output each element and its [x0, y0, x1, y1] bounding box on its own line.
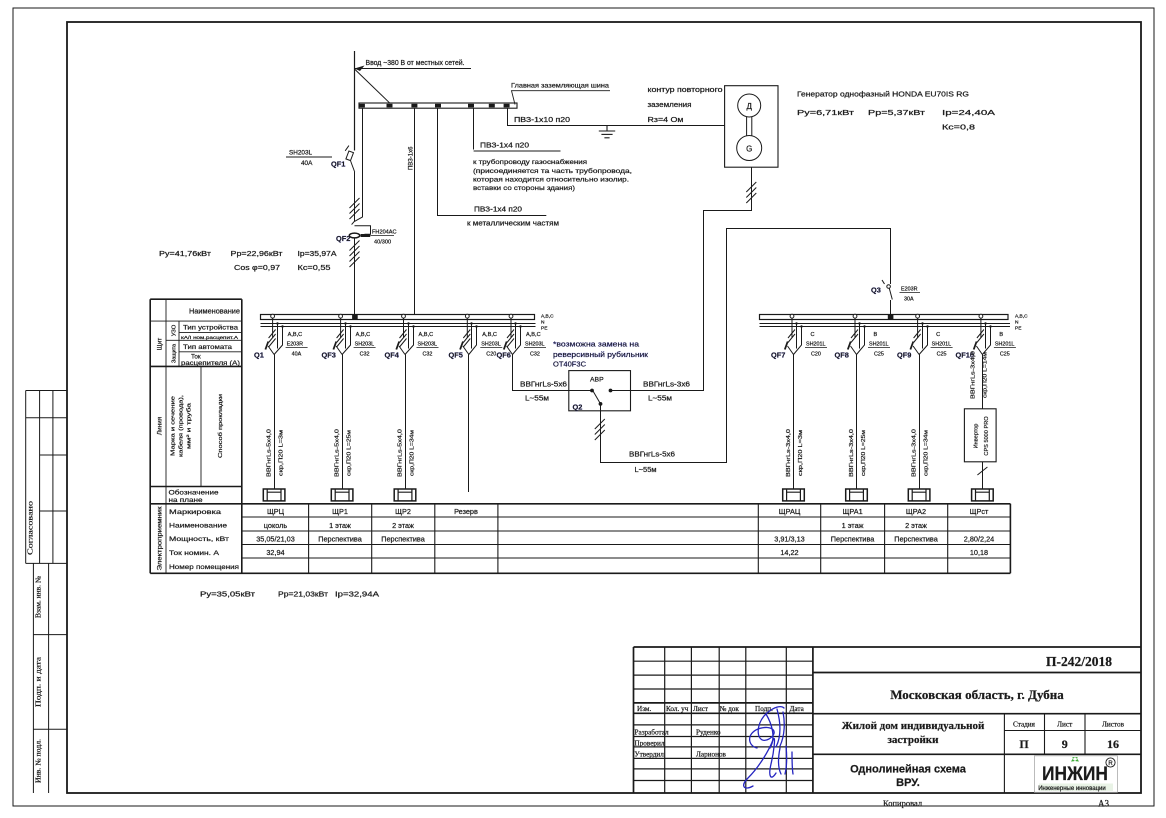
svg-text:N: N: [541, 320, 545, 326]
svg-text:C32: C32: [423, 352, 433, 358]
svg-text:ВРУ.: ВРУ.: [896, 777, 920, 789]
svg-text:40A: 40A: [301, 160, 313, 167]
cable marks below QF2: [350, 241, 360, 268]
svg-text:32,94: 32,94: [266, 548, 284, 557]
circuit breaker QF3: [333, 314, 351, 354]
svg-text:Кс=0,8: Кс=0,8: [942, 125, 975, 132]
svg-text:30A: 30A: [904, 297, 914, 303]
svg-text:Лист: Лист: [1057, 721, 1073, 729]
svg-text:R: R: [1108, 761, 1113, 767]
svg-text:ПВЗ-1х4 п20: ПВЗ-1х4 п20: [480, 143, 529, 150]
svg-text:Iр=32,94А: Iр=32,94А: [335, 590, 379, 599]
wire: ПВЗ-1х10 to earth electrode and generator frame: [508, 108, 725, 125]
wire: АВР output to backup bus: [601, 229, 891, 463]
svg-text:Руденко: Руденко: [696, 729, 721, 737]
svg-text:ИНЖИН: ИНЖИН: [1042, 764, 1108, 785]
svg-text:L~55м: L~55м: [648, 396, 672, 403]
svg-text:Инженерные инновации: Инженерные инновации: [1038, 786, 1106, 792]
svg-text:Rз=4 Ом: Rз=4 Ом: [648, 117, 684, 124]
svg-text:FH204AC: FH204AC: [372, 230, 397, 236]
svg-text:ОТ40F3C: ОТ40F3C: [553, 362, 586, 369]
svg-text:A,B,C: A,B,C: [356, 332, 371, 338]
svg-text:ЩРАЦ: ЩРАЦ: [779, 507, 801, 516]
svg-text:QF7: QF7: [771, 351, 785, 360]
svg-text:*возможна замена на: *возможна замена на: [553, 342, 639, 349]
svg-text:скр,П20 L=25м: скр,П20 L=25м: [347, 430, 353, 476]
svg-text:C: C: [936, 332, 940, 338]
panel symbol ЩР2: [394, 489, 416, 501]
svg-text:Согласовано: Согласовано: [26, 501, 35, 555]
svg-text:SH203L: SH203L: [289, 150, 313, 157]
svg-text:вставки со стороны здания): вставки со стороны здания): [473, 185, 575, 192]
wire: reserve feeder QF5: [468, 355, 470, 493]
logo ИНЖИН: [1034, 756, 1117, 793]
svg-text:(присоединяется та часть трубо: (присоединяется та часть трубопровода,: [473, 167, 632, 175]
wire: ПВЗ-1х4 to gas pipe: [473, 108, 475, 149]
panel symbol ЩРст: [972, 489, 994, 501]
svg-text:ЩРА2: ЩРА2: [906, 507, 926, 516]
svg-text:ВВГнгLs-5х4,0: ВВГнгLs-5х4,0: [398, 429, 404, 477]
svg-text:Однолинейная схема: Однолинейная схема: [850, 764, 967, 776]
svg-text:10,18: 10,18: [970, 548, 988, 557]
svg-text:Тип автомата: Тип автомата: [183, 344, 233, 351]
schedule table header: [150, 299, 1010, 573]
svg-text:Взам. инв. №: Взам. инв. №: [35, 576, 43, 618]
title block grid: [634, 647, 1142, 793]
svg-text:Стадия: Стадия: [1013, 721, 1036, 729]
cable marks between QF1 and QF2: [350, 198, 360, 219]
svg-text:ПВЗ-1х6: ПВЗ-1х6: [409, 146, 415, 170]
wire: incoming supply line: [354, 51, 356, 151]
panel symbol ЩРА2: [908, 489, 930, 501]
svg-text:E203R: E203R: [287, 342, 304, 348]
svg-text:2 этаж: 2 этаж: [905, 521, 927, 530]
svg-text:скр,П20 L=34м: скр,П20 L=34м: [410, 430, 416, 476]
svg-text:Кс=0,55: Кс=0,55: [298, 265, 331, 272]
svg-text:ПВЗ-1х4 п20: ПВЗ-1х4 п20: [474, 207, 522, 214]
svg-text:2 этаж: 2 этаж: [392, 521, 414, 530]
svg-text:Ру=35,05кВт: Ру=35,05кВт: [200, 590, 256, 599]
svg-text:40A: 40A: [292, 352, 302, 358]
svg-text:расцепителя (А): расцепителя (А): [181, 360, 240, 367]
svg-text:SH201L: SH201L: [806, 342, 825, 348]
title block header texts: [635, 705, 805, 759]
svg-text:Ру=6,71кВт: Ру=6,71кВт: [797, 110, 855, 117]
svg-text:PE: PE: [541, 326, 547, 332]
circuit breaker QF5: [460, 314, 478, 354]
svg-text:Перспектива: Перспектива: [381, 534, 426, 543]
svg-text:Перспектива: Перспектива: [318, 534, 363, 543]
svg-text:Способ прокладки: Способ прокладки: [218, 394, 224, 458]
svg-text:кабеля (провода),: кабеля (провода),: [179, 395, 185, 457]
svg-text:Маркировка: Маркировка: [169, 509, 221, 516]
svg-text:ПВЗ-1х10 п20: ПВЗ-1х10 п20: [514, 117, 570, 124]
svg-text:Электроприемник: Электроприемник: [158, 506, 164, 570]
main earthing busbar ГЗШ: [359, 103, 517, 108]
svg-text:Лист: Лист: [693, 705, 709, 713]
svg-text:40/300: 40/300: [374, 240, 391, 246]
svg-text:14,22: 14,22: [780, 548, 798, 557]
svg-text:A,B,C: A,B,C: [288, 332, 303, 338]
svg-text:1 этаж: 1 этаж: [329, 521, 351, 530]
svg-text:CPS 5000 PRO: CPS 5000 PRO: [984, 416, 990, 456]
wire: PEN conductor from ГЗШ to QF2: [355, 108, 363, 221]
svg-text:Подп. и дата: Подп. и дата: [35, 656, 43, 707]
panel symbol ЩРЦ: [263, 489, 285, 501]
svg-text:ВВГнгLs-3х4,0: ВВГнгLs-3х4,0: [849, 429, 855, 477]
svg-text:П: П: [1019, 737, 1029, 751]
svg-text:реверсивный рубильник: реверсивный рубильник: [553, 351, 649, 359]
svg-text:Резерв: Резерв: [454, 507, 478, 516]
svg-text:Изм.: Изм.: [637, 705, 651, 713]
svg-text:Разработал: Разработал: [635, 729, 669, 737]
svg-text:Копировал: Копировал: [883, 798, 923, 808]
svg-text:ВВГнгLs-3х4,0: ВВГнгLs-3х4,0: [912, 429, 918, 477]
svg-text:2,80/2,24: 2,80/2,24: [964, 534, 994, 543]
main bus A,B,C (left section): [261, 315, 535, 320]
svg-text:C20: C20: [486, 352, 496, 358]
svg-text:A,B,C: A,B,C: [482, 332, 497, 338]
arrowhead on supply leader: [355, 66, 365, 72]
svg-text:SH201L: SH201L: [995, 342, 1014, 348]
svg-text:C20: C20: [811, 352, 821, 358]
circuit breaker Q1: [265, 314, 283, 354]
svg-text:Iр=35,97А: Iр=35,97А: [298, 251, 337, 258]
svg-text:B: B: [999, 332, 1003, 338]
svg-text:мм² и труба: мм² и труба: [187, 402, 193, 449]
svg-text:Подп.: Подп.: [755, 705, 773, 713]
circuit breaker QF8: [848, 314, 866, 354]
svg-text:А3: А3: [1098, 799, 1109, 809]
svg-text:QF4: QF4: [385, 351, 400, 360]
svg-text:Рр=21,03кВт: Рр=21,03кВт: [278, 590, 329, 599]
svg-text:Ларионов: Ларионов: [696, 751, 727, 759]
wire: ПВЗ-1х6 conductor to panel PE: [414, 108, 416, 314]
svg-text:Утвердил: Утвердил: [635, 751, 665, 759]
svg-text:Перспектива: Перспектива: [894, 534, 939, 543]
svg-text:Защита: Защита: [172, 344, 178, 363]
PE bus (left): [261, 326, 536, 328]
N bus (right): [760, 323, 1011, 325]
svg-text:Дата: Дата: [790, 705, 805, 713]
svg-text:C32: C32: [530, 352, 540, 358]
svg-text:E203R: E203R: [901, 287, 918, 293]
left margin stamp grid: [26, 391, 67, 794]
junction: Q3 to backup bus: [888, 314, 894, 320]
svg-text:PE: PE: [1015, 326, 1021, 332]
svg-text:ВВГнгLs-5х6: ВВГнгLs-5х6: [629, 452, 675, 459]
svg-text:Тип устройства: Тип устройства: [183, 324, 239, 332]
svg-text:заземления: заземления: [648, 102, 692, 109]
panel symbol ЩРАЦ: [783, 489, 805, 501]
svg-text:застройки: застройки: [888, 734, 940, 746]
svg-text:ВВГнгLs-3х4,0: ВВГнгLs-3х4,0: [971, 351, 977, 399]
svg-text:QF6: QF6: [497, 351, 511, 360]
svg-text:кА/I ном.расцепит.А: кА/I ном.расцепит.А: [181, 335, 239, 340]
svg-text:SH201L: SH201L: [932, 342, 951, 348]
svg-text:SH203L: SH203L: [525, 342, 544, 348]
svg-text:ЩРА1: ЩРА1: [843, 507, 863, 516]
RCD QF2 FH204AC: [349, 221, 370, 314]
panel symbol ЩР1: [331, 489, 353, 501]
svg-text:Ток номин. А: Ток номин. А: [169, 550, 220, 557]
circuit breaker QF7: [785, 314, 803, 354]
svg-text:C32: C32: [360, 352, 370, 358]
svg-text:скр,П20 L=25м: скр,П20 L=25м: [861, 430, 867, 476]
svg-text:к трубопроводу газоснабжения: к трубопроводу газоснабжения: [473, 158, 588, 166]
svg-text:Перспектива: Перспектива: [831, 534, 876, 543]
svg-text:ВВГнгLs-3х6: ВВГнгLs-3х6: [643, 382, 690, 389]
svg-text:Q3: Q3: [871, 286, 881, 295]
svg-text:на плане: на плане: [169, 497, 204, 504]
svg-text:QF8: QF8: [835, 351, 849, 360]
svg-text:которая находится относительно: которая находится относительно изолир.: [473, 176, 629, 183]
svg-text:G: G: [746, 144, 752, 153]
wire: cable to ЩРА1: [856, 355, 858, 490]
svg-text:A,B,C: A,B,C: [1015, 314, 1028, 320]
PE bus (right): [760, 326, 1011, 328]
svg-text:Ввод ~380 В от местных сетей.: Ввод ~380 В от местных сетей.: [366, 59, 465, 67]
svg-text:ЩРст: ЩРст: [970, 507, 989, 516]
svg-text:ЩРЦ: ЩРЦ: [267, 507, 285, 516]
svg-text:A,B,C: A,B,C: [541, 314, 554, 320]
svg-text:QF5: QF5: [449, 351, 463, 360]
svg-text:Обозначение: Обозначение: [169, 489, 220, 497]
svg-text:35,05/21,03: 35,05/21,03: [256, 534, 295, 543]
svg-text:Московская область, г. Дубна: Московская область, г. Дубна: [890, 687, 1064, 702]
svg-text:Главная заземляющая шина: Главная заземляющая шина: [511, 83, 610, 90]
svg-text:Рр=22,96кВт: Рр=22,96кВт: [231, 251, 284, 258]
svg-text:Cos φ=0,97: Cos φ=0,97: [234, 265, 280, 272]
signature scribbles: [744, 707, 793, 788]
svg-text:Наименование: Наименование: [169, 523, 227, 530]
svg-text:ЩР2: ЩР2: [395, 507, 411, 516]
svg-text:L~55м: L~55м: [635, 467, 657, 474]
svg-text:скр,П20 L=3м: скр,П20 L=3м: [798, 430, 804, 476]
ground electrode symbol: [599, 126, 615, 138]
circuit breaker QF1: [345, 146, 355, 222]
svg-text:цоколь: цоколь: [264, 521, 288, 530]
svg-text:Инвертор: Инвертор: [974, 424, 980, 449]
svg-text:Q2: Q2: [573, 403, 583, 412]
svg-text:SH203L: SH203L: [355, 342, 374, 348]
svg-text:ВВГнгLs-5х4,0: ВВГнгLs-5х4,0: [267, 429, 273, 477]
svg-text:Инв. № подл.: Инв. № подл.: [35, 739, 43, 783]
svg-text:№ док: № док: [720, 705, 740, 713]
svg-text:П-242/2018: П-242/2018: [1046, 654, 1112, 669]
wire: QF6 to АВР input: [513, 355, 591, 391]
svg-text:Жилой дом индивидуальной: Жилой дом индивидуальной: [842, 720, 985, 732]
panel symbol ЩРА1: [846, 489, 868, 501]
svg-text:9: 9: [1062, 737, 1068, 751]
svg-text:3,91/3,13: 3,91/3,13: [774, 534, 804, 543]
svg-text:Наименование: Наименование: [189, 309, 240, 316]
svg-text:скр,П20 L=14м: скр,П20 L=14м: [983, 352, 989, 398]
wire: cable to ЩР2: [405, 355, 407, 490]
svg-text:Мощность, кВт: Мощность, кВт: [169, 536, 229, 543]
N bus (left): [261, 323, 536, 325]
svg-text:QF9: QF9: [897, 351, 911, 360]
wire: cable to ЩРАЦ: [793, 355, 795, 490]
svg-text:ВВГнгLs-5х6: ВВГнгLs-5х6: [520, 382, 567, 389]
svg-text:Генератор однофазный HONDA: Генератор однофазный HONDA EU70IS RG: [797, 91, 969, 99]
svg-text:QF3: QF3: [322, 351, 336, 360]
circuit breaker QF10: [974, 314, 992, 354]
svg-text:УЗО: УЗО: [172, 324, 178, 336]
svg-text:Проверил: Проверил: [635, 740, 665, 748]
backup bus (right section): [760, 315, 1009, 320]
svg-text:B: B: [874, 332, 878, 338]
svg-text:SH203L: SH203L: [418, 342, 437, 348]
svg-text:C25: C25: [937, 352, 947, 358]
svg-text:A,B,C: A,B,C: [526, 332, 541, 338]
circuit breaker QF4: [396, 314, 414, 354]
svg-text:SH203L: SH203L: [481, 342, 500, 348]
circuit breaker Q3: [882, 280, 892, 315]
svg-text:ВВГнгLs-3х4,0: ВВГнгLs-3х4,0: [786, 429, 792, 477]
wire: cable to ЩРА2: [919, 355, 921, 490]
svg-text:Номер помещения: Номер помещения: [169, 564, 239, 571]
svg-text:Ру=41,76кВт: Ру=41,76кВт: [159, 251, 212, 258]
svg-text:ЩР1: ЩР1: [332, 507, 348, 516]
wire: ПВЗ-1х4 to metal parts: [438, 108, 547, 215]
svg-text:Листов: Листов: [1102, 721, 1125, 729]
svg-text:16: 16: [1107, 737, 1119, 751]
circuit breaker QF6: [504, 314, 522, 354]
svg-text:SH201L: SH201L: [869, 342, 888, 348]
wire: cable to inverter: [982, 355, 984, 409]
svg-text:QF2: QF2: [336, 234, 350, 243]
svg-text:C25: C25: [1000, 352, 1010, 358]
svg-text:QF1: QF1: [331, 160, 345, 169]
svg-text:АВР: АВР: [590, 377, 604, 384]
svg-text:A,B,C: A,B,C: [419, 332, 434, 338]
wire: cable to ЩРЦ: [274, 355, 276, 490]
svg-text:N: N: [1015, 320, 1019, 326]
svg-text:Рр=5,37кВт: Рр=5,37кВт: [868, 110, 926, 117]
ATS switch АВР Q2: [569, 371, 631, 411]
svg-text:к металлическим частям: к металлическим частям: [467, 221, 559, 228]
svg-text:Щит: Щит: [157, 338, 164, 351]
svg-text:скр,П20 L=3м: скр,П20 L=3м: [279, 430, 285, 476]
svg-text:1 этаж: 1 этаж: [842, 521, 864, 530]
svg-text:Линия: Линия: [157, 416, 164, 435]
svg-text:C25: C25: [874, 352, 884, 358]
wire: PEN tap diagonal to main earthing bar: [355, 69, 390, 103]
wire: inverter to ЩРст: [982, 462, 984, 489]
generator HONDA EU70IS: [725, 86, 778, 168]
wire: generator output to АВР: [612, 167, 752, 390]
svg-text:L~55м: L~55м: [525, 396, 549, 403]
svg-text:Кол. уч: Кол. уч: [666, 705, 689, 713]
inverter CPS 5000 PRO: [964, 409, 996, 462]
svg-text:Марка и сечение: Марка и сечение: [171, 396, 177, 456]
svg-text:C: C: [811, 332, 815, 338]
wire: cable to ЩР1: [342, 355, 344, 490]
svg-text:контур повторного: контур повторного: [648, 87, 723, 94]
junction: incoming to bus: [352, 314, 358, 320]
svg-text:Iр=24,40А: Iр=24,40А: [942, 110, 996, 117]
svg-text:ВВГнгLs-5х4,0: ВВГнгLs-5х4,0: [335, 429, 341, 477]
svg-text:Д: Д: [746, 102, 752, 111]
svg-text:скр,П20 L=34м: скр,П20 L=34м: [924, 430, 930, 476]
circuit breaker QF9: [910, 314, 928, 354]
svg-text:Q1: Q1: [254, 351, 264, 360]
